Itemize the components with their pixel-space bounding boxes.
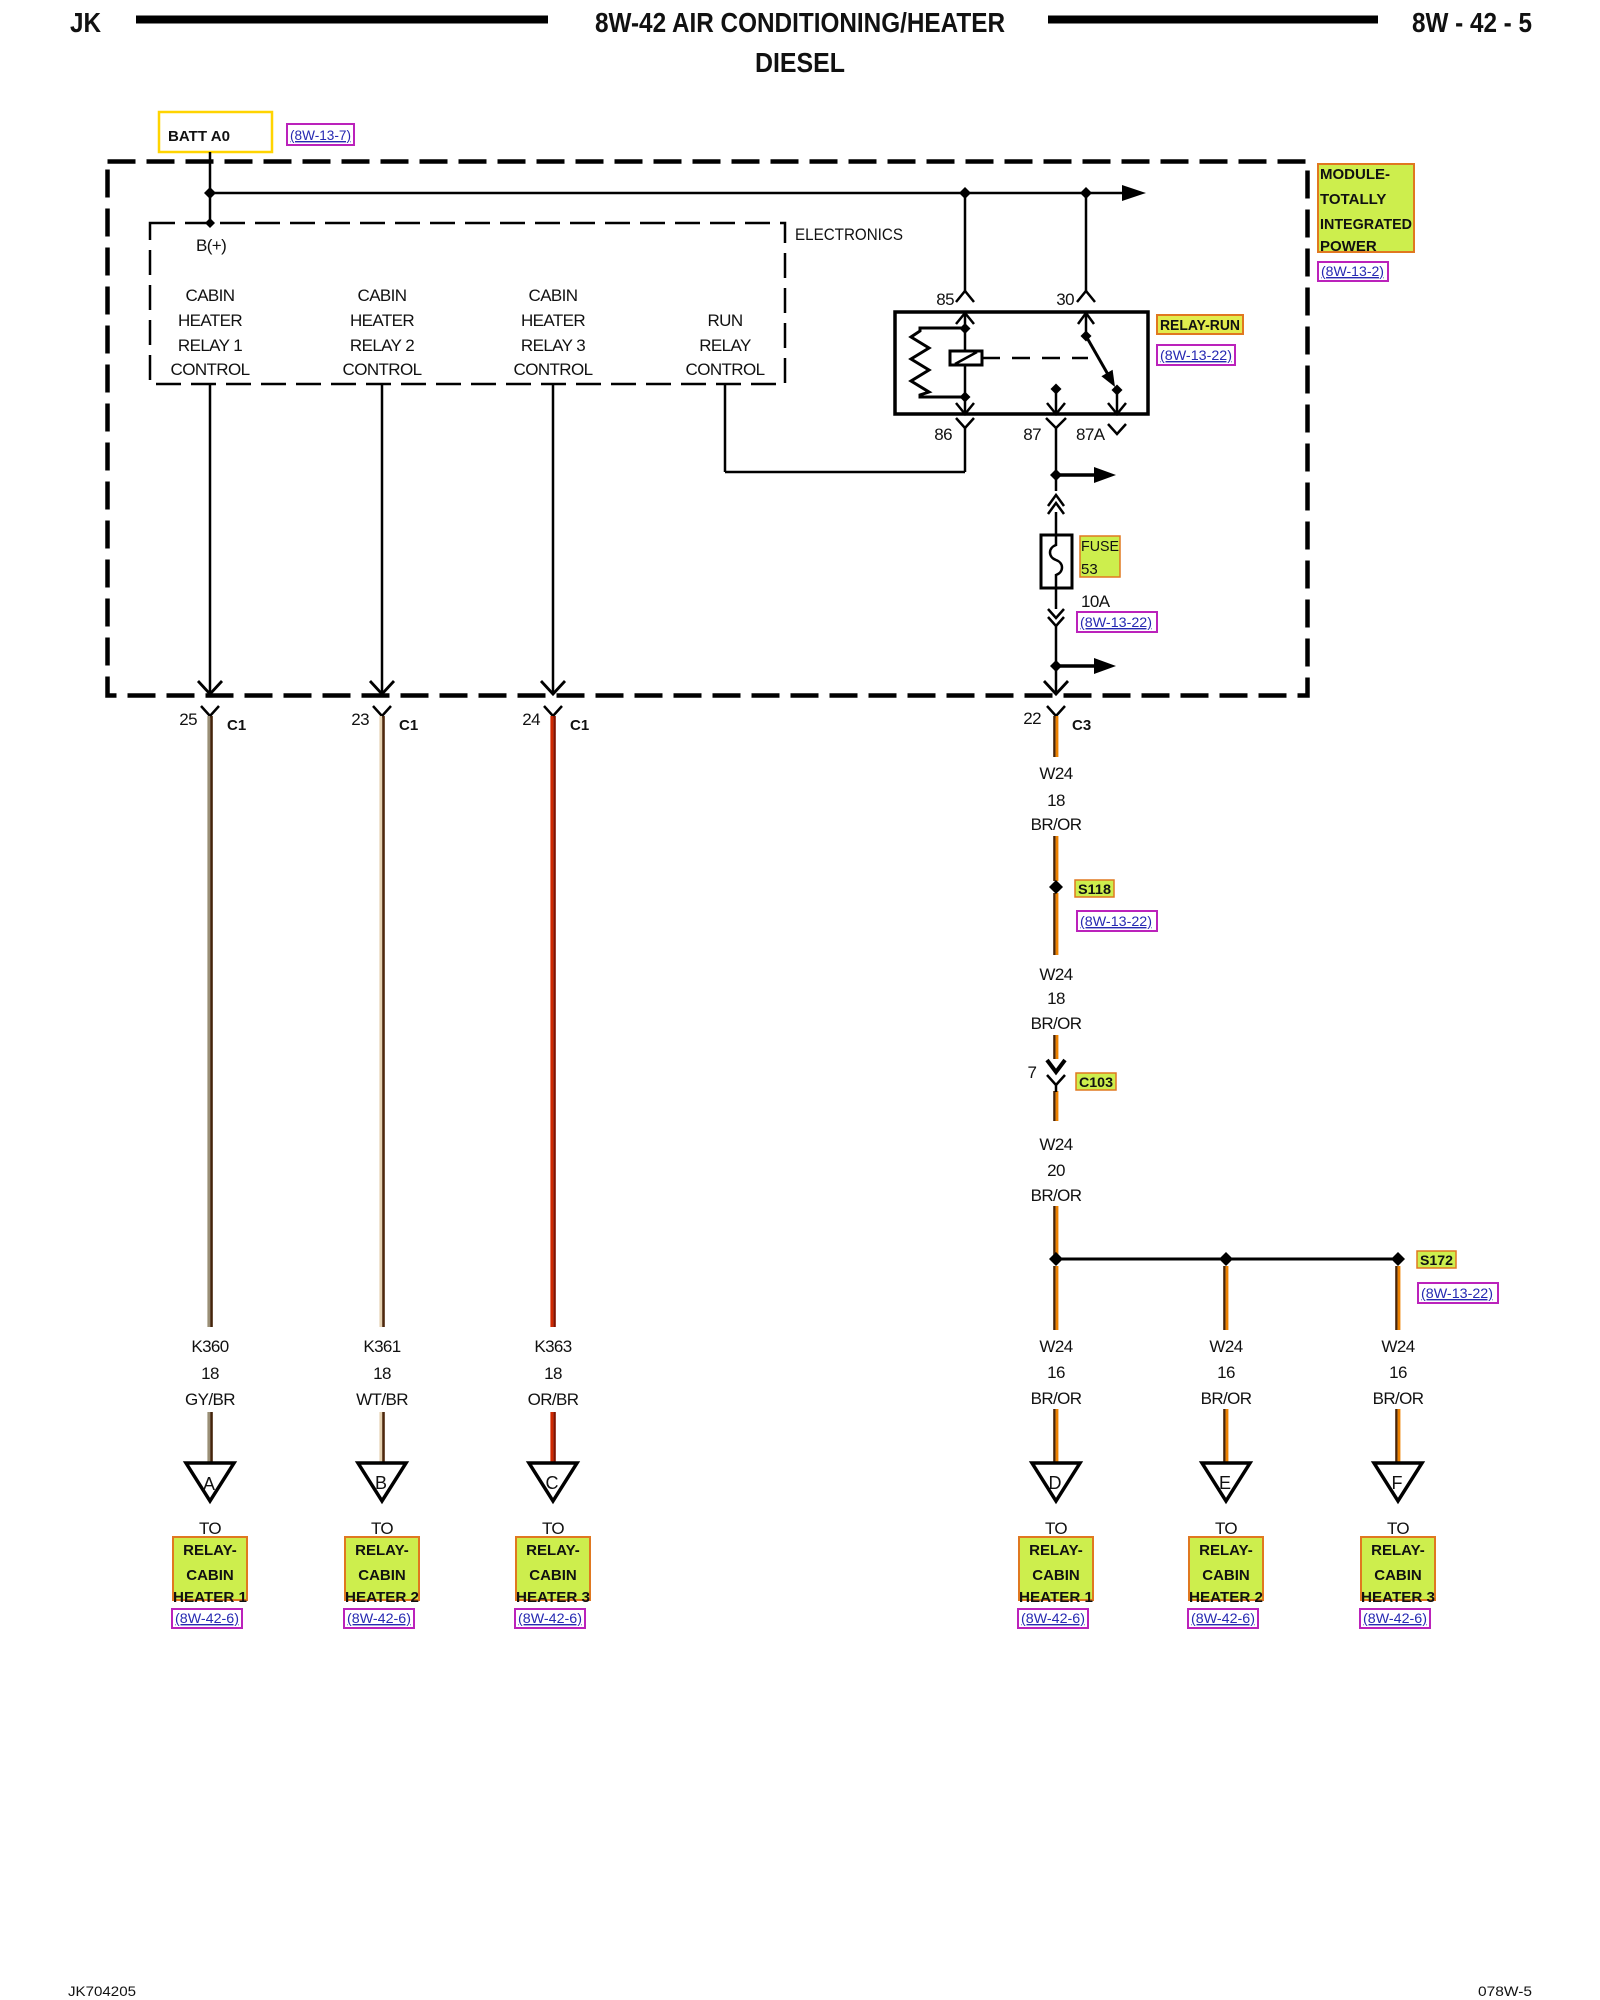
svg-text:RELAY: RELAY xyxy=(699,336,751,355)
svg-text:(8W-42-6): (8W-42-6) xyxy=(175,1610,239,1626)
svg-text:K361: K361 xyxy=(363,1337,400,1356)
svg-text:MODULE-: MODULE- xyxy=(1320,166,1390,183)
svg-text:K360: K360 xyxy=(191,1337,228,1356)
svg-text:85: 85 xyxy=(936,290,954,309)
svg-text:B: B xyxy=(375,1473,387,1493)
svg-text:B(+): B(+) xyxy=(196,236,226,255)
svg-text:BR/OR: BR/OR xyxy=(1373,1389,1424,1408)
svg-text:18: 18 xyxy=(544,1364,562,1383)
svg-text:HEATER 3: HEATER 3 xyxy=(1361,1589,1435,1606)
svg-text:BR/OR: BR/OR xyxy=(1031,1186,1082,1205)
svg-text:(8W-13-7): (8W-13-7) xyxy=(290,127,351,143)
svg-text:CONTROL: CONTROL xyxy=(171,360,250,379)
svg-text:C1: C1 xyxy=(399,717,418,734)
svg-text:WT/BR: WT/BR xyxy=(356,1390,408,1409)
svg-text:CONTROL: CONTROL xyxy=(514,360,593,379)
svg-text:CONTROL: CONTROL xyxy=(343,360,422,379)
svg-text:HEATER 1: HEATER 1 xyxy=(1019,1589,1093,1606)
svg-text:22: 22 xyxy=(1023,709,1041,728)
svg-text:18: 18 xyxy=(1047,791,1065,810)
svg-text:W24: W24 xyxy=(1039,1337,1072,1356)
svg-text:JK704205: JK704205 xyxy=(68,1983,136,1999)
svg-text:OR/BR: OR/BR xyxy=(528,1390,579,1409)
svg-text:HEATER: HEATER xyxy=(350,311,414,330)
svg-text:TO: TO xyxy=(542,1519,564,1538)
svg-text:C103: C103 xyxy=(1079,1074,1113,1090)
svg-text:HEATER 2: HEATER 2 xyxy=(1189,1589,1263,1606)
svg-text:W24: W24 xyxy=(1039,965,1072,984)
svg-text:INTEGRATED: INTEGRATED xyxy=(1320,216,1412,233)
svg-text:87A: 87A xyxy=(1076,425,1106,444)
svg-text:HEATER 2: HEATER 2 xyxy=(345,1589,419,1606)
svg-text:20: 20 xyxy=(1047,1161,1065,1180)
svg-text:BR/OR: BR/OR xyxy=(1031,815,1082,834)
svg-text:HEATER: HEATER xyxy=(521,311,585,330)
svg-text:POWER: POWER xyxy=(1320,238,1377,255)
svg-text:A: A xyxy=(203,1474,215,1494)
svg-text:W24: W24 xyxy=(1209,1337,1242,1356)
svg-text:16: 16 xyxy=(1389,1363,1407,1382)
svg-text:RELAY 2: RELAY 2 xyxy=(350,336,414,355)
svg-text:W24: W24 xyxy=(1039,1135,1072,1154)
svg-text:S172: S172 xyxy=(1420,1252,1453,1268)
svg-text:87: 87 xyxy=(1023,425,1041,444)
svg-text:18: 18 xyxy=(1047,989,1065,1008)
svg-text:RUN: RUN xyxy=(707,311,742,330)
svg-text:(8W-42-6): (8W-42-6) xyxy=(1363,1610,1427,1626)
svg-text:E: E xyxy=(1219,1473,1231,1493)
svg-text:W24: W24 xyxy=(1039,764,1072,783)
svg-text:HEATER 1: HEATER 1 xyxy=(173,1589,247,1606)
svg-text:(8W-13-22): (8W-13-22) xyxy=(1160,347,1232,363)
svg-text:BATT A0: BATT A0 xyxy=(168,128,230,145)
svg-text:(8W-13-22): (8W-13-22) xyxy=(1080,614,1152,630)
svg-text:HEATER: HEATER xyxy=(178,311,242,330)
svg-text:18: 18 xyxy=(373,1364,391,1383)
svg-text:C: C xyxy=(546,1473,559,1493)
svg-text:CABIN: CABIN xyxy=(1032,1567,1080,1584)
svg-text:(8W-13-22): (8W-13-22) xyxy=(1080,913,1152,929)
svg-text:W24: W24 xyxy=(1381,1337,1414,1356)
svg-text:078W-5: 078W-5 xyxy=(1478,1983,1532,1999)
svg-text:53: 53 xyxy=(1081,561,1098,578)
svg-text:CABIN: CABIN xyxy=(529,286,578,305)
svg-text:BR/OR: BR/OR xyxy=(1031,1014,1082,1033)
svg-text:RELAY-: RELAY- xyxy=(1029,1542,1083,1559)
svg-text:(8W-42-6): (8W-42-6) xyxy=(1021,1610,1085,1626)
svg-text:F: F xyxy=(1392,1473,1403,1493)
svg-text:ELECTRONICS: ELECTRONICS xyxy=(795,225,903,244)
svg-text:CABIN: CABIN xyxy=(1374,1567,1422,1584)
svg-text:TO: TO xyxy=(1215,1519,1237,1538)
svg-text:CABIN: CABIN xyxy=(1202,1567,1250,1584)
svg-text:CABIN: CABIN xyxy=(186,286,235,305)
svg-text:10A: 10A xyxy=(1081,592,1111,611)
svg-text:CONTROL: CONTROL xyxy=(686,360,765,379)
svg-text:RELAY-: RELAY- xyxy=(1371,1542,1425,1559)
svg-text:(8W-42-6): (8W-42-6) xyxy=(518,1610,582,1626)
svg-text:23: 23 xyxy=(351,710,369,729)
svg-text:TO: TO xyxy=(199,1519,221,1538)
svg-text:C3: C3 xyxy=(1072,717,1091,734)
svg-text:RELAY 3: RELAY 3 xyxy=(521,336,585,355)
svg-text:C1: C1 xyxy=(570,717,589,734)
svg-text:CABIN: CABIN xyxy=(358,1567,406,1584)
svg-text:(8W-13-2): (8W-13-2) xyxy=(1321,263,1384,279)
svg-text:K363: K363 xyxy=(534,1337,571,1356)
svg-text:8W-42 AIR CONDITIONING/HEATER: 8W-42 AIR CONDITIONING/HEATER xyxy=(595,7,1005,38)
svg-text:30: 30 xyxy=(1056,290,1074,309)
svg-text:16: 16 xyxy=(1217,1363,1235,1382)
svg-text:RELAY-: RELAY- xyxy=(355,1542,409,1559)
svg-text:(8W-13-22): (8W-13-22) xyxy=(1421,1285,1493,1301)
svg-text:DIESEL: DIESEL xyxy=(755,47,845,78)
svg-text:S118: S118 xyxy=(1078,881,1111,897)
svg-text:CABIN: CABIN xyxy=(529,1567,577,1584)
svg-text:CABIN: CABIN xyxy=(186,1567,234,1584)
svg-text:8W - 42 - 5: 8W - 42 - 5 xyxy=(1412,7,1532,38)
svg-text:CABIN: CABIN xyxy=(358,286,407,305)
svg-text:(8W-42-6): (8W-42-6) xyxy=(1191,1610,1255,1626)
svg-text:HEATER 3: HEATER 3 xyxy=(516,1589,590,1606)
svg-text:86: 86 xyxy=(934,425,952,444)
svg-text:D: D xyxy=(1049,1473,1062,1493)
svg-text:TO: TO xyxy=(1045,1519,1067,1538)
svg-text:24: 24 xyxy=(522,710,540,729)
svg-text:RELAY-RUN: RELAY-RUN xyxy=(1160,317,1240,334)
svg-text:BR/OR: BR/OR xyxy=(1031,1389,1082,1408)
svg-text:GY/BR: GY/BR xyxy=(185,1390,235,1409)
svg-text:BR/OR: BR/OR xyxy=(1201,1389,1252,1408)
svg-text:JK: JK xyxy=(70,7,101,38)
svg-text:TO: TO xyxy=(1387,1519,1409,1538)
svg-text:16: 16 xyxy=(1047,1363,1065,1382)
svg-text:TOTALLY: TOTALLY xyxy=(1320,191,1386,208)
svg-text:RELAY 1: RELAY 1 xyxy=(178,336,242,355)
svg-text:7: 7 xyxy=(1028,1063,1037,1082)
svg-text:TO: TO xyxy=(371,1519,393,1538)
svg-text:RELAY-: RELAY- xyxy=(183,1542,237,1559)
svg-text:(8W-42-6): (8W-42-6) xyxy=(347,1610,411,1626)
svg-text:25: 25 xyxy=(179,710,197,729)
svg-text:RELAY-: RELAY- xyxy=(526,1542,580,1559)
svg-text:FUSE: FUSE xyxy=(1081,538,1119,555)
svg-text:RELAY-: RELAY- xyxy=(1199,1542,1253,1559)
svg-text:18: 18 xyxy=(201,1364,219,1383)
svg-text:C1: C1 xyxy=(227,717,246,734)
